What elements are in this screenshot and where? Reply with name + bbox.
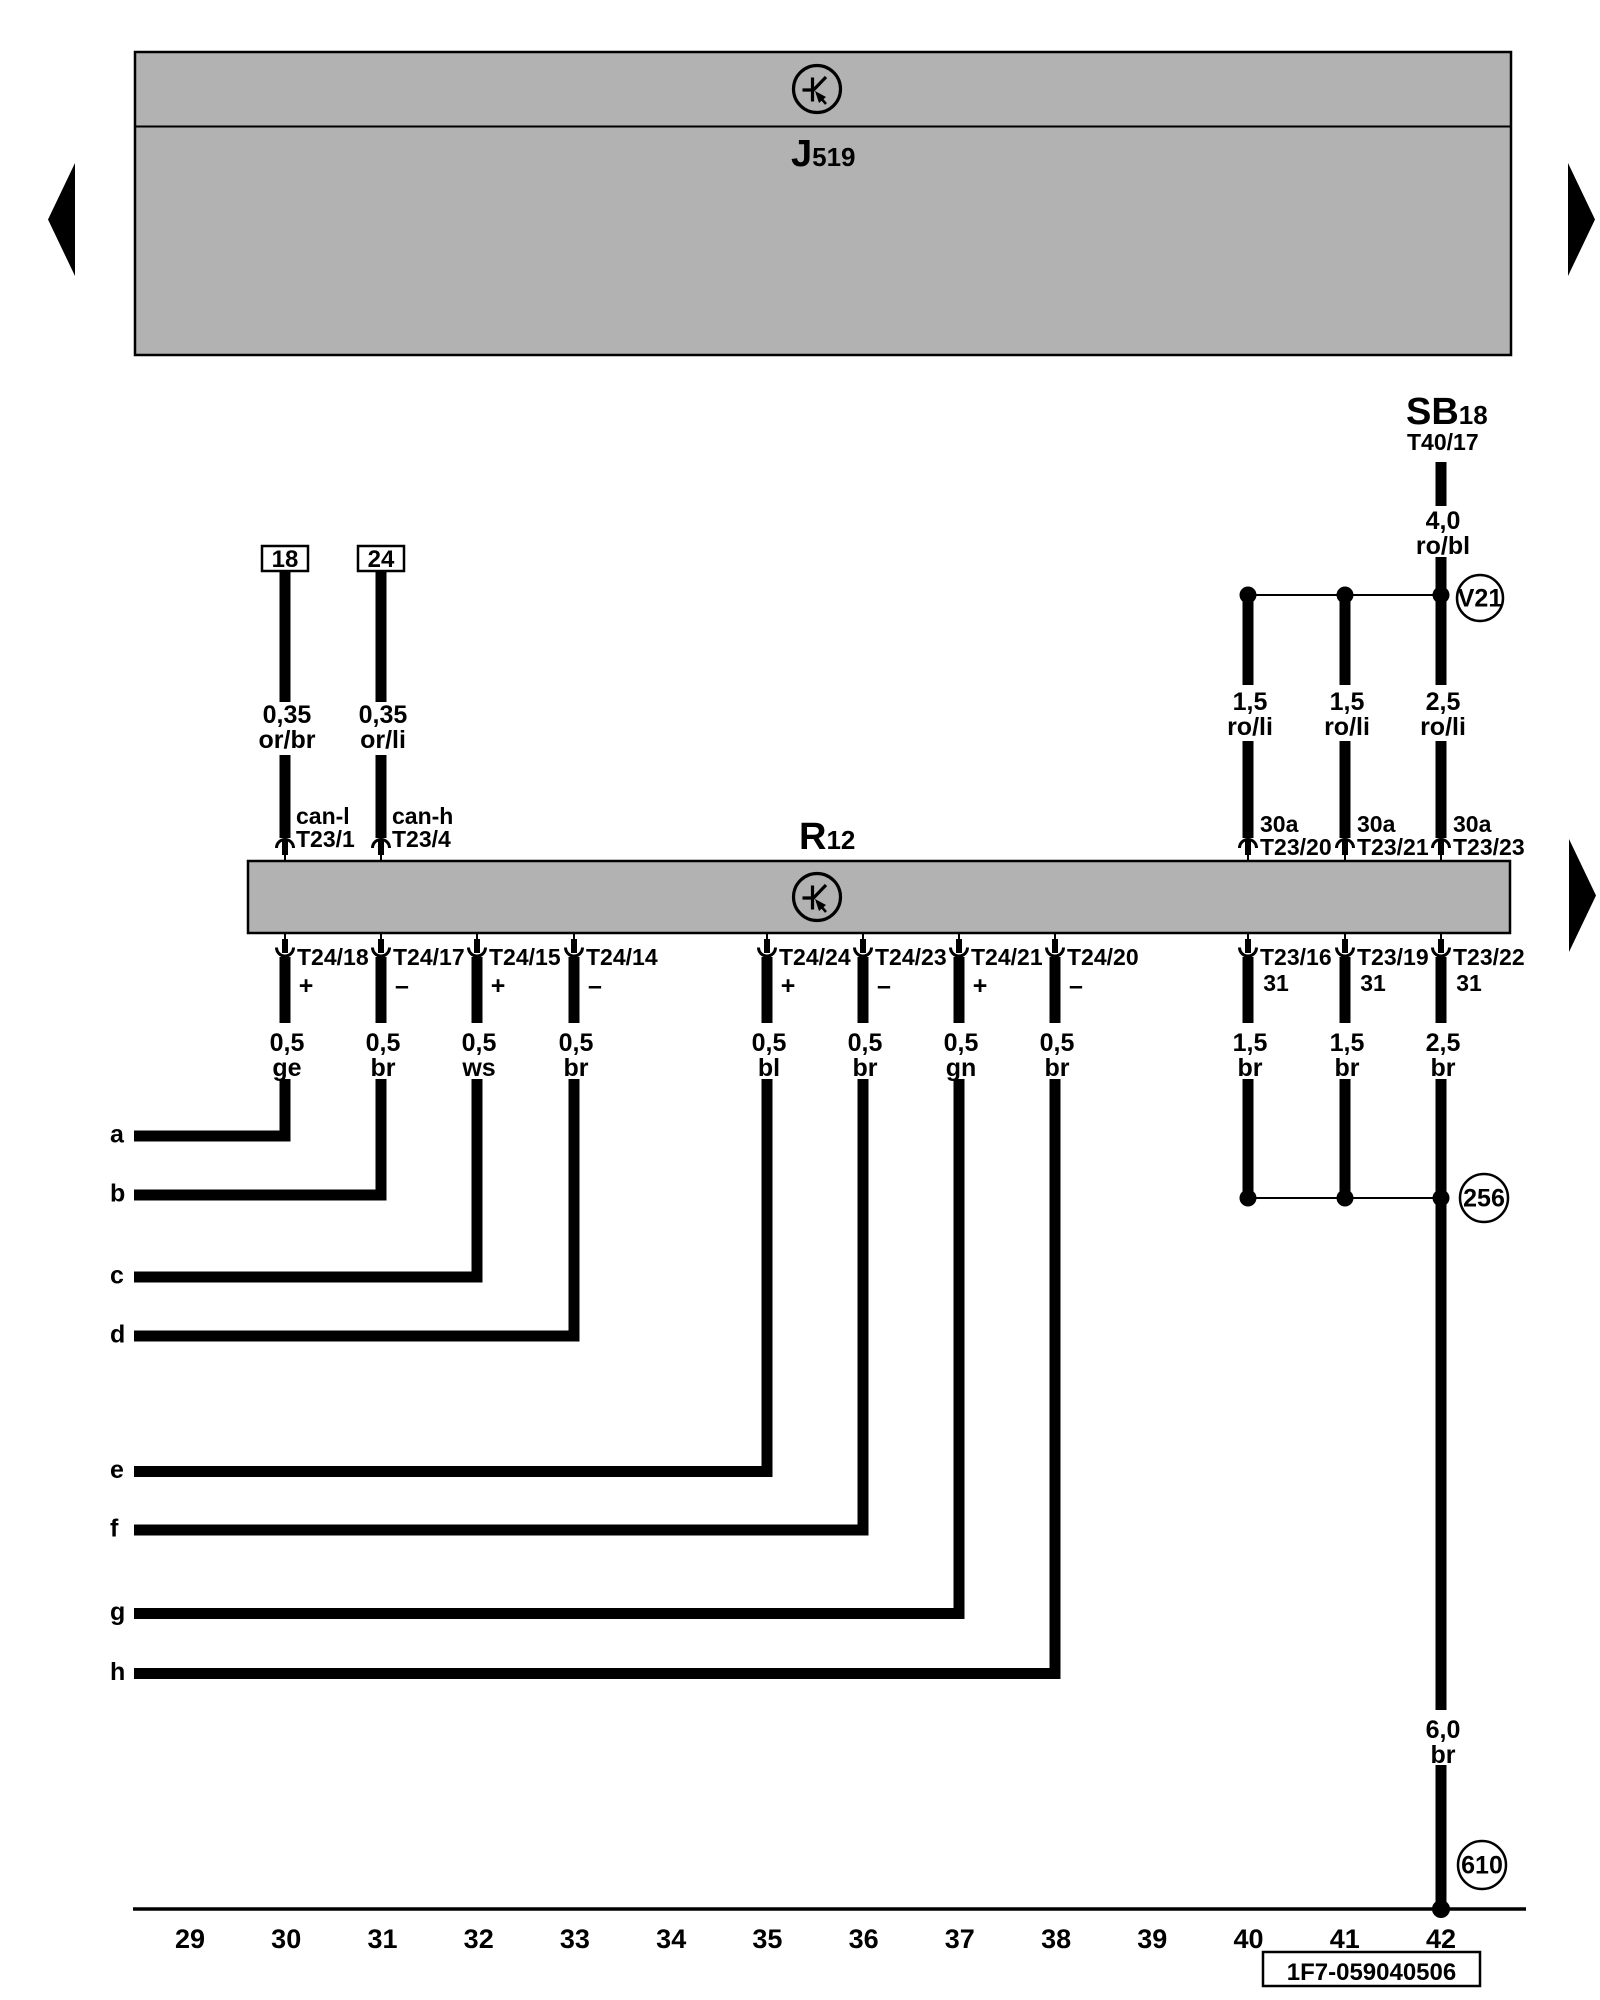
wire col40 segment down to node 256 line	[1243, 1079, 1254, 1198]
wire segment to R12	[280, 755, 291, 838]
wire segment to R12	[376, 755, 387, 838]
svg-text:18: 18	[272, 546, 299, 573]
svg-text:35: 35	[752, 1924, 782, 1954]
interactive-link symbol in J519 strip	[794, 66, 841, 113]
radio unit bar R12	[248, 861, 1510, 933]
wire e horizontal run	[134, 1466, 773, 1477]
wire col40 segment to R12	[1243, 741, 1254, 838]
svg-text:b: b	[110, 1180, 125, 1208]
svg-text:0,5: 0,5	[752, 1029, 787, 1057]
ground rail / current track line	[133, 1907, 1526, 1911]
svg-text:a: a	[110, 1121, 125, 1149]
svg-text:0,5: 0,5	[270, 1029, 305, 1057]
svg-text:0,5: 0,5	[1040, 1029, 1075, 1057]
svg-text:T24/14: T24/14	[586, 944, 658, 970]
ground node reference 256	[1460, 1174, 1508, 1222]
wire col42 long segment below 256	[1436, 1079, 1447, 1710]
svg-text:0,5: 0,5	[366, 1029, 401, 1057]
svg-text:T24/15: T24/15	[489, 944, 561, 970]
junction dot col42	[1433, 587, 1450, 604]
svg-text:T24/20: T24/20	[1067, 944, 1139, 970]
svg-text:610: 610	[1461, 1852, 1503, 1880]
svg-text:38: 38	[1041, 1924, 1071, 1954]
svg-text:br: br	[853, 1054, 878, 1082]
junction dot col42 at 256	[1433, 1190, 1450, 1207]
svg-text:41: 41	[1330, 1924, 1360, 1954]
svg-text:2,5: 2,5	[1426, 1029, 1461, 1057]
svg-text:T23/22: T23/22	[1453, 944, 1525, 970]
wire c horizontal run	[134, 1272, 483, 1283]
svg-text:br: br	[1431, 1741, 1456, 1769]
connector pin T23/21 (into R12 top)	[1337, 840, 1354, 862]
svg-text:br: br	[1335, 1054, 1360, 1082]
wire col36 below R12, upper segment	[858, 957, 869, 1023]
connector pin T24/18 (from R12 bottom)	[277, 933, 294, 956]
svg-text:T23/1: T23/1	[296, 826, 355, 852]
svg-text:2,5: 2,5	[1426, 688, 1461, 716]
wire col31 below R12, upper segment	[376, 957, 387, 1023]
svg-text:g: g	[110, 1598, 125, 1626]
svg-text:ro/li: ro/li	[1324, 713, 1370, 741]
connector pin T24/15 (from R12 bottom)	[469, 933, 486, 956]
svg-text:or/li: or/li	[360, 726, 406, 754]
junction dot col41	[1337, 587, 1354, 604]
node 256 distribution line	[1248, 1197, 1441, 1199]
junction dot at ground rail	[1432, 1900, 1450, 1918]
wire d horizontal run	[134, 1331, 580, 1342]
wire col35 vertical segment down to row e	[762, 1079, 773, 1477]
connector reference box 18	[262, 546, 308, 573]
connector pin T24/17 (from R12 bottom)	[373, 933, 390, 956]
svg-text:bl: bl	[758, 1054, 780, 1082]
svg-text:or/br: or/br	[259, 726, 316, 754]
wire col38 below R12, upper segment	[1050, 957, 1061, 1023]
svg-text:31: 31	[1360, 970, 1386, 996]
wire col42 final segment to ground rail	[1436, 1765, 1447, 1909]
svg-text:br: br	[1431, 1054, 1456, 1082]
wire b horizontal run	[134, 1190, 387, 1201]
svg-text:0,35: 0,35	[359, 701, 408, 729]
wire col42 segment to R12	[1436, 741, 1447, 838]
node reference V21	[1457, 575, 1503, 621]
control unit box J519 (onboard supply control unit)	[135, 52, 1511, 355]
wire from box 18, upper segment	[280, 571, 291, 702]
svg-text:V21: V21	[1458, 585, 1503, 613]
wire segment down to V21 node and below	[1436, 557, 1447, 685]
junction dot col40 at 256	[1240, 1190, 1257, 1207]
wire col41 upper segment from V21 node	[1340, 592, 1351, 685]
wire col35 below R12, upper segment	[762, 957, 773, 1023]
junction dot col40	[1240, 587, 1257, 604]
svg-text:ge: ge	[272, 1054, 301, 1082]
svg-text:1F7-059040506: 1F7-059040506	[1287, 1959, 1456, 1986]
svg-text:256: 256	[1463, 1185, 1505, 1213]
svg-text:+: +	[781, 972, 796, 1000]
svg-text:ws: ws	[461, 1054, 495, 1082]
wire f horizontal run	[134, 1525, 869, 1536]
svg-text:33: 33	[560, 1924, 590, 1954]
svg-text:4,0: 4,0	[1426, 507, 1461, 535]
wire from SB18 T40/17, upper segment	[1436, 462, 1447, 506]
diagram reference box 1F7-059040506	[1263, 1952, 1480, 1986]
svg-text:T24/17: T24/17	[393, 944, 465, 970]
svg-text:T24/21: T24/21	[971, 944, 1043, 970]
connector pin T24/20 (from R12 bottom)	[1047, 933, 1064, 956]
wire col36 vertical segment down to row f	[858, 1079, 869, 1536]
wire col32 below R12, upper segment	[472, 957, 483, 1023]
wire col40 below R12, upper segment	[1243, 957, 1254, 1023]
svg-text:–: –	[1069, 972, 1083, 1000]
wire col37 vertical segment down to row g	[954, 1079, 965, 1619]
svg-text:gn: gn	[946, 1054, 977, 1082]
svg-text:+: +	[491, 972, 506, 1000]
svg-text:T23/16: T23/16	[1260, 944, 1332, 970]
svg-text:+: +	[299, 972, 314, 1000]
svg-text:1,5: 1,5	[1330, 688, 1365, 716]
svg-text:30: 30	[271, 1924, 301, 1954]
svg-text:37: 37	[945, 1924, 975, 1954]
svg-text:24: 24	[368, 546, 395, 573]
svg-text:br: br	[1238, 1054, 1263, 1082]
svg-text:–: –	[395, 972, 409, 1000]
wire col33 below R12, upper segment	[569, 957, 580, 1023]
svg-text:c: c	[110, 1262, 124, 1290]
svg-text:0,35: 0,35	[263, 701, 312, 729]
connector pin T23/19 (from R12 bottom)	[1337, 933, 1354, 956]
svg-text:0,5: 0,5	[848, 1029, 883, 1057]
wire col30 vertical segment down to row a	[280, 1079, 291, 1142]
svg-text:e: e	[110, 1456, 124, 1484]
node V21 distribution line	[1248, 594, 1441, 596]
ground node reference 610	[1458, 1841, 1506, 1889]
svg-text:f: f	[110, 1515, 119, 1543]
wire col38 vertical segment down to row h	[1050, 1079, 1061, 1679]
wire from box 24, upper segment	[376, 571, 387, 702]
svg-text:T23/20: T23/20	[1260, 834, 1332, 860]
svg-text:ro/li: ro/li	[1420, 713, 1466, 741]
svg-text:42: 42	[1426, 1924, 1456, 1954]
wire col31 vertical segment down to row b	[376, 1079, 387, 1201]
svg-text:T24/23: T24/23	[875, 944, 947, 970]
svg-text:1,5: 1,5	[1233, 1029, 1268, 1057]
connector pin T24/24 (from R12 bottom)	[759, 933, 776, 956]
connector pin T23/22 (from R12 bottom)	[1433, 933, 1450, 956]
right continuation arrow (R12)	[1569, 839, 1596, 952]
svg-text:0,5: 0,5	[944, 1029, 979, 1057]
connector pin T24/14 (from R12 bottom)	[566, 933, 583, 956]
svg-text:T23/19: T23/19	[1357, 944, 1429, 970]
svg-text:34: 34	[656, 1924, 686, 1954]
svg-text:ro/bl: ro/bl	[1416, 532, 1470, 560]
svg-text:0,5: 0,5	[462, 1029, 497, 1057]
svg-text:0,5: 0,5	[559, 1029, 594, 1057]
svg-text:T23/23: T23/23	[1453, 834, 1525, 860]
wire col32 vertical segment down to row c	[472, 1079, 483, 1283]
wire col41 segment to R12	[1340, 741, 1351, 838]
wire col33 vertical segment down to row d	[569, 1079, 580, 1342]
svg-text:br: br	[371, 1054, 396, 1082]
connector pin T24/23 (from R12 bottom)	[855, 933, 872, 956]
svg-text:1,5: 1,5	[1330, 1029, 1365, 1057]
right continuation arrow (top)	[1568, 163, 1595, 276]
connector pin T23/4 (into R12 top)	[373, 840, 390, 862]
svg-text:T24/18: T24/18	[297, 944, 369, 970]
svg-text:+: +	[973, 972, 988, 1000]
svg-text:br: br	[564, 1054, 589, 1082]
junction dot col41 at 256	[1337, 1190, 1354, 1207]
connector pin T23/23 (into R12 top)	[1433, 840, 1450, 862]
svg-text:T40/17: T40/17	[1407, 429, 1479, 455]
wire col30 below R12, upper segment	[280, 957, 291, 1023]
svg-text:T23/21: T23/21	[1357, 834, 1429, 860]
svg-text:br: br	[1045, 1054, 1070, 1082]
wire col42 below R12, upper segment	[1436, 957, 1447, 1023]
left continuation arrow	[48, 163, 75, 276]
svg-text:6,0: 6,0	[1426, 1716, 1461, 1744]
svg-text:d: d	[110, 1321, 125, 1349]
connector pin T23/1 (into R12 top)	[277, 840, 294, 862]
svg-text:40: 40	[1233, 1924, 1263, 1954]
svg-text:31: 31	[367, 1924, 397, 1954]
svg-text:31: 31	[1263, 970, 1289, 996]
svg-text:T23/4: T23/4	[392, 826, 451, 852]
interactive-link symbol in R12 bar	[794, 874, 841, 921]
svg-text:h: h	[110, 1658, 125, 1686]
wire col37 below R12, upper segment	[954, 957, 965, 1023]
svg-text:32: 32	[464, 1924, 494, 1954]
wire g horizontal run	[134, 1608, 965, 1619]
wire col41 segment down to node 256 line	[1340, 1079, 1351, 1198]
svg-text:36: 36	[849, 1924, 879, 1954]
wire col41 below R12, upper segment	[1340, 957, 1351, 1023]
svg-text:T24/24: T24/24	[779, 944, 851, 970]
wire a horizontal run	[134, 1131, 291, 1142]
svg-text:39: 39	[1137, 1924, 1167, 1954]
svg-text:1,5: 1,5	[1233, 688, 1268, 716]
connector pin T23/16 (from R12 bottom)	[1240, 933, 1257, 956]
wire h horizontal run	[134, 1668, 1061, 1679]
connector pin T24/21 (from R12 bottom)	[951, 933, 968, 956]
svg-text:ro/li: ro/li	[1227, 713, 1273, 741]
wire col40 upper segment from V21 node	[1243, 592, 1254, 685]
svg-text:31: 31	[1456, 970, 1482, 996]
connector reference box 24	[358, 546, 404, 573]
svg-text:29: 29	[175, 1924, 205, 1954]
svg-text:–: –	[877, 972, 891, 1000]
connector pin T23/20 (into R12 top)	[1240, 840, 1257, 862]
svg-text:–: –	[588, 972, 602, 1000]
